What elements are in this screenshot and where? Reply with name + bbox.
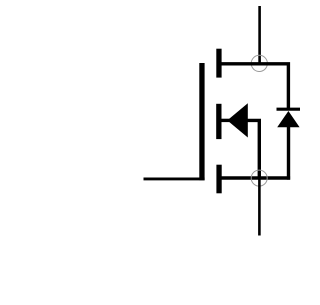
wire: gate lead xyxy=(144,177,205,180)
wire: drain top lead xyxy=(258,6,261,64)
transistor M1 source contact bar xyxy=(216,165,221,194)
wire: diode anode lead xyxy=(287,126,290,180)
transistor M1 gate bar xyxy=(199,63,204,180)
transistor M1 body arrow xyxy=(227,103,248,137)
wire: source bottom lead xyxy=(258,178,261,236)
transistor M1 body contact bar xyxy=(216,104,221,139)
node: source terminal circle xyxy=(251,170,267,186)
wire: source lead xyxy=(221,176,290,179)
diode D1 cathode bar xyxy=(277,108,301,111)
wire: drain lead to diode cathode corner xyxy=(221,64,288,109)
node: drain terminal circle xyxy=(251,55,267,71)
wire: body bar to arrow tip xyxy=(222,119,230,122)
transistor M1 drain contact bar xyxy=(216,49,221,78)
wire: body to source junction xyxy=(247,120,259,178)
diode D1 anode triangle xyxy=(277,111,299,127)
